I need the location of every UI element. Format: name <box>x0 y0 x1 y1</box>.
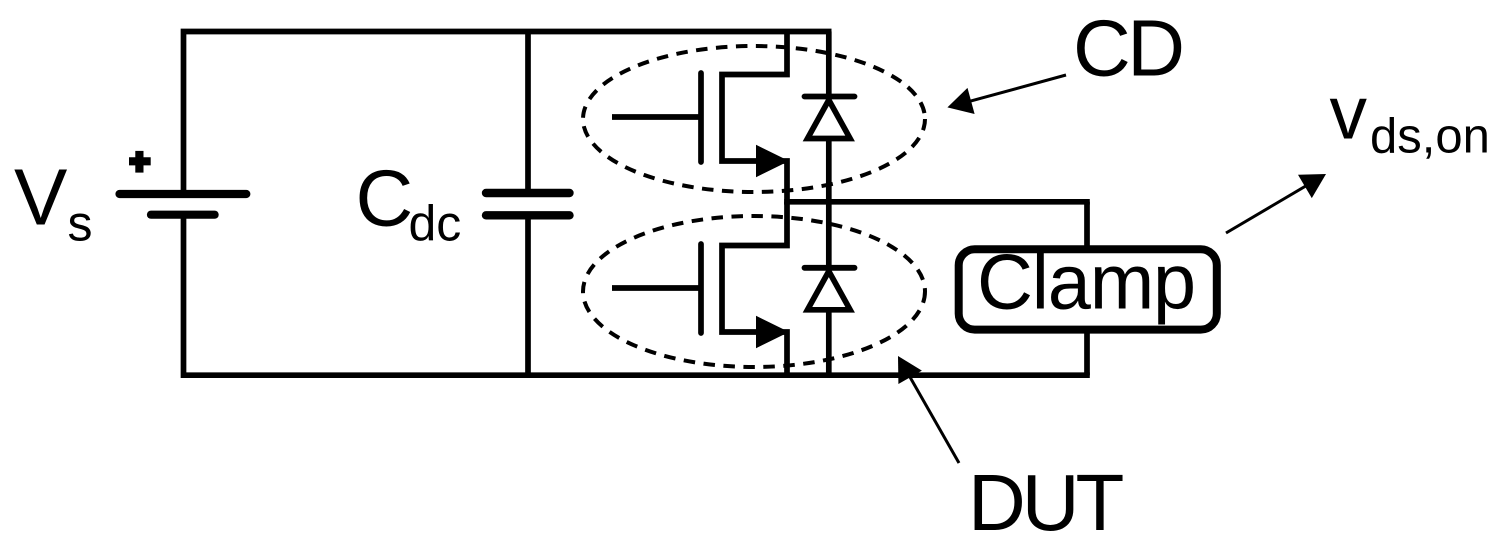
svg-text:dc: dc <box>409 196 462 252</box>
svg-text:CD: CD <box>1073 4 1182 93</box>
wire: Cdc bottom lead <box>525 213 531 375</box>
source arrow of M2 <box>756 316 789 348</box>
svg-text:ds,on: ds,on <box>1370 110 1490 164</box>
arrow: DUT callout pointing to DUT ellipse <box>898 356 959 463</box>
svg-text:V: V <box>14 153 68 242</box>
arrow: vds,on callout from clamp output <box>1226 174 1326 233</box>
dashed ellipse around CD device <box>583 46 925 192</box>
svg-text:Clamp: Clamp <box>977 240 1195 326</box>
wire: Vs negative terminal down and bottom rail <box>184 212 1090 375</box>
capacitor Cdc <box>486 193 570 215</box>
transistor M1 (top switch of half bridge) <box>612 32 787 205</box>
svg-text:C: C <box>356 154 414 243</box>
wire: Cdc top lead <box>525 32 531 196</box>
dashed ellipse around DUT device <box>583 216 925 367</box>
diode D1 (clamp diode, antiparallel with M1) <box>805 97 855 139</box>
svg-text:v: v <box>1330 71 1368 155</box>
diode D2 (body diode of DUT) <box>805 268 855 310</box>
wire: clamp right-side vertical lead <box>1084 202 1090 375</box>
source arrow of M1 <box>756 145 789 177</box>
svg-text:DUT: DUT <box>968 458 1124 547</box>
polarity plus sign of Vs <box>129 151 151 173</box>
wire: half-bridge leg (diode line, DC+ to DC-) <box>826 32 832 376</box>
arrow: CD callout pointing to clamp-diode ellipse <box>947 75 1066 114</box>
wire: switch-node (mid node) to clamp <box>784 199 1090 205</box>
svg-text:s: s <box>68 196 93 252</box>
transistor M2 (DUT, bottom switch of half bridge) <box>612 202 787 375</box>
clamp circuit box <box>959 249 1217 329</box>
wire: left branch (Vs to top rail) and top rail <box>184 32 832 197</box>
voltage source Vs (battery symbol) <box>120 194 247 215</box>
